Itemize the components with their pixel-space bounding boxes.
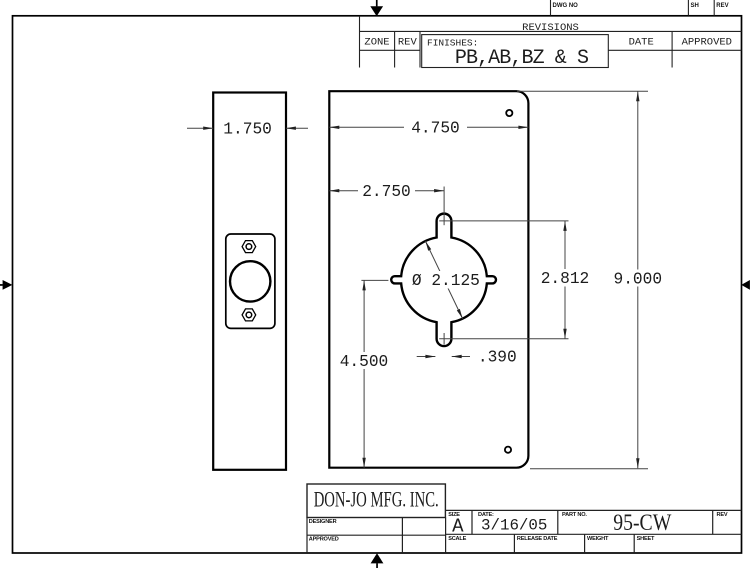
svg-text:2.750: 2.750 (362, 183, 411, 201)
svg-text:3/16/05: 3/16/05 (481, 517, 547, 535)
left plate (edge view) (213, 93, 286, 470)
top hex nut (242, 241, 256, 253)
svg-text:REVISIONS: REVISIONS (522, 22, 579, 34)
svg-text:DESIGNER: DESIGNER (309, 519, 337, 525)
bottom hex nut (242, 309, 256, 321)
sheet centering arrow bottom (371, 553, 384, 568)
svg-text:REV: REV (398, 37, 418, 49)
revisions block lines (360, 16, 742, 68)
left plate big circle (230, 261, 270, 301)
dim 4.750 (329, 126, 528, 128)
sheet centering arrow top (370, 0, 383, 16)
dim 4.500 (361, 279, 388, 281)
dim 2.812 (564, 221, 566, 339)
title block lines (307, 484, 742, 553)
svg-text:APPROVED: APPROVED (309, 537, 339, 543)
dim .390 (417, 356, 436, 358)
svg-text:4.750: 4.750 (411, 120, 460, 138)
svg-text:DATE: DATE (629, 37, 654, 49)
sheet centering arrow left (0, 280, 12, 290)
screw hole top (506, 110, 512, 116)
svg-text:95-CW: 95-CW (613, 510, 671, 535)
svg-text:PART NO.: PART NO. (562, 512, 587, 518)
main plate outline (329, 91, 528, 468)
svg-text:1.750: 1.750 (223, 120, 272, 138)
svg-text:4.500: 4.500 (340, 353, 389, 371)
dim 9.000 (637, 91, 639, 468)
svg-text:APPROVED: APPROVED (682, 37, 732, 49)
dim 2.812 ext lines (439, 220, 568, 222)
leader line dia 2.125 (425, 241, 462, 319)
svg-text:SHEET: SHEET (637, 536, 655, 542)
svg-text:DWG NO: DWG NO (553, 3, 579, 9)
svg-text:PB,AB,BZ & S: PB,AB,BZ & S (455, 47, 589, 70)
svg-text:.390: .390 (478, 349, 517, 367)
sheet centering arrow right (741, 280, 750, 290)
dim 2.750 (329, 190, 444, 192)
svg-text:2.812: 2.812 (541, 270, 590, 288)
svg-text:REV: REV (716, 3, 728, 9)
left plate inner rounded cutout plate (226, 234, 275, 328)
svg-text:ZONE: ZONE (364, 37, 389, 49)
svg-text:WEIGHT: WEIGHT (587, 536, 609, 542)
svg-text:DON-JO MFG. INC.: DON-JO MFG. INC. (314, 487, 439, 512)
screw hole bottom (505, 447, 511, 453)
svg-text:REV: REV (717, 512, 728, 518)
svg-text:RELEASE DATE: RELEASE DATE (517, 536, 558, 542)
svg-text:SH: SH (691, 3, 699, 9)
svg-text:Ø 2.125: Ø 2.125 (412, 272, 480, 290)
top partial strip verticals (551, 0, 715, 16)
dim 1.750 (187, 127, 308, 129)
cross recess hole (391, 214, 496, 346)
svg-text:9.000: 9.000 (614, 270, 663, 288)
svg-text:A: A (452, 516, 464, 538)
dim 9.000 ext lines (517, 90, 648, 92)
